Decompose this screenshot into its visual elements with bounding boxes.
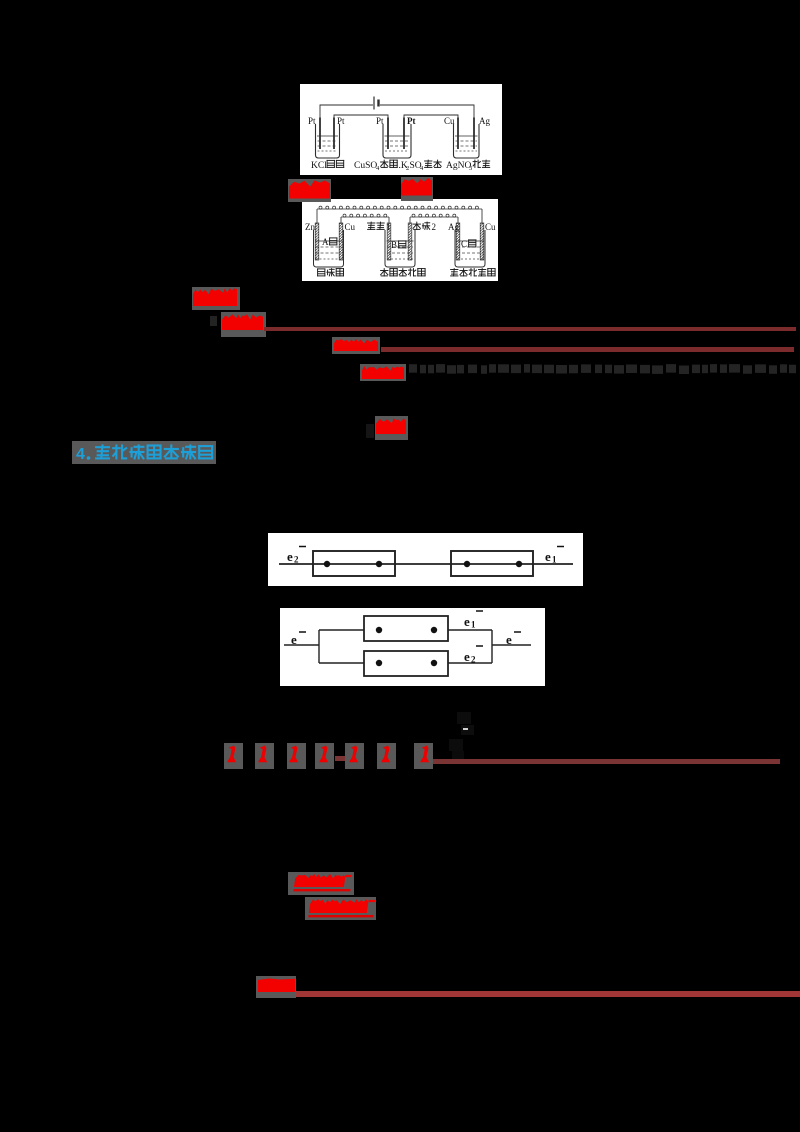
label rongye1: [327, 159, 334, 161]
battery: [373, 97, 375, 110]
label graphite1: [368, 222, 375, 224]
beaker cell3: [454, 124, 480, 158]
svg-text:C: C: [461, 239, 467, 249]
beaker cell1: [316, 124, 340, 158]
wire main: [279, 563, 573, 565]
svg-text:Pt: Pt: [337, 116, 345, 126]
terminal dot: [516, 561, 522, 567]
underline row 2: [264, 327, 796, 331]
electrode Ag: [473, 118, 475, 150]
svg-text:Zn: Zn: [305, 222, 315, 232]
electrode Pt4: [403, 118, 405, 150]
svg-text:Ag: Ag: [479, 116, 490, 126]
dark red bar after mark4: [335, 756, 358, 761]
red formula line 2: [305, 897, 376, 920]
wire inner coil B-C: [409, 217, 411, 224]
wire cell1-cell2: [334, 115, 388, 122]
label rongye3: [425, 160, 432, 162]
wire battery left: [320, 105, 373, 122]
svg-text:CuSO: CuSO: [354, 161, 377, 171]
svg-text:1: 1: [386, 222, 391, 232]
terminal dot: [324, 561, 330, 567]
beaker cell2: [383, 124, 411, 158]
svg-text:Pt: Pt: [376, 116, 384, 126]
terminal dot: [376, 627, 382, 633]
diagram: galvanic cells A B C: [302, 199, 498, 281]
electrode graphite2: [408, 223, 412, 260]
wire battery right: [380, 105, 474, 122]
dark red bar after mark7: [428, 759, 780, 764]
beaker cell C: [455, 230, 485, 267]
faint mark squares: [457, 712, 471, 724]
svg-text:3: 3: [469, 165, 472, 172]
diagram: three electrolysis cells in series: [300, 84, 502, 175]
svg-text:2: 2: [294, 555, 299, 565]
svg-text:e: e: [506, 632, 512, 647]
red mark 3: [287, 743, 306, 769]
red answer row 4: [360, 364, 406, 381]
electrode graphite1: [387, 223, 391, 260]
electrode Ag: [456, 223, 460, 260]
red mark 5: [345, 743, 364, 769]
svg-text:e: e: [545, 549, 551, 564]
electrode Pt3: [387, 118, 389, 150]
svg-text:Ag: Ag: [448, 222, 459, 232]
wire top branch: [319, 629, 364, 631]
wire junction right: [491, 630, 493, 663]
terminal dot: [376, 660, 382, 666]
red mark 4: [315, 743, 334, 769]
electrode Cu: [457, 118, 459, 150]
label copper chloride solution: [381, 270, 388, 272]
dark dashed line row 4: [409, 362, 800, 380]
red mark 1: [224, 743, 243, 769]
terminal dot: [376, 561, 382, 567]
svg-text:Pt: Pt: [407, 116, 416, 126]
svg-text:e: e: [291, 632, 297, 647]
bottom dark red bar: [296, 991, 800, 997]
electrode Zn: [315, 223, 319, 260]
red mark 6: [377, 743, 396, 769]
svg-text:2: 2: [471, 655, 476, 665]
heading blue section title: [72, 441, 216, 464]
red answer row 5: [366, 424, 374, 438]
cell box bottom: [364, 651, 448, 676]
beaker cell B: [385, 230, 415, 267]
cell box 2: [451, 551, 533, 576]
svg-text:1: 1: [471, 620, 476, 630]
electrode Cu C: [480, 223, 484, 260]
svg-text:2: 2: [432, 222, 437, 232]
svg-text:Cu: Cu: [345, 222, 356, 232]
svg-text:e: e: [464, 614, 470, 629]
wire right lead: [492, 644, 531, 646]
electrode Pt1: [319, 118, 321, 150]
svg-text:A: A: [322, 237, 329, 247]
cell box 1: [313, 551, 395, 576]
label rongye4: [474, 160, 476, 167]
red answer row 3: [332, 337, 380, 354]
wire bottom branch: [319, 662, 364, 664]
label silver nitrate solution: [451, 269, 458, 271]
svg-text:4: 4: [420, 165, 424, 172]
svg-text:4: 4: [76, 446, 85, 463]
svg-text:B: B: [391, 240, 397, 250]
cell box top: [364, 616, 448, 641]
wire junction left: [318, 630, 320, 663]
svg-text:1: 1: [552, 555, 557, 565]
label graphite2: [413, 223, 420, 225]
red mark 2: [255, 743, 274, 769]
red tag 2: [401, 177, 433, 201]
underline row 3: [381, 347, 794, 352]
red answer row 2: [210, 316, 217, 326]
bottom red tag: [256, 976, 296, 998]
svg-text:Cu: Cu: [485, 222, 496, 232]
svg-text:4: 4: [376, 165, 380, 172]
diagram: cells in parallel: [280, 608, 545, 686]
svg-text:e: e: [464, 649, 470, 664]
svg-text:e: e: [287, 549, 293, 564]
svg-text:Cu: Cu: [444, 116, 455, 126]
wire inner coil A-B: [340, 217, 342, 224]
faint white dash: [463, 728, 468, 730]
svg-text:Pt: Pt: [308, 116, 316, 126]
red formula line 1: [288, 872, 354, 895]
red answer row 1: [192, 287, 240, 310]
electrode Pt2: [333, 118, 335, 150]
beaker cell A: [314, 230, 344, 267]
electrode Cu A: [339, 223, 343, 260]
red tag 1: [288, 179, 331, 202]
wire outer coil: [316, 209, 318, 224]
terminal dot: [464, 561, 470, 567]
label dilute sulfuric acid: [318, 268, 325, 270]
svg-text:KCl: KCl: [311, 161, 327, 171]
red mark 7: [414, 743, 433, 769]
wire left lead: [284, 644, 319, 646]
label rongye2: [381, 161, 388, 163]
diagram: cells in series: [268, 533, 583, 586]
wire cell2-cell3: [404, 115, 458, 122]
svg-text:AgNO: AgNO: [446, 161, 471, 171]
